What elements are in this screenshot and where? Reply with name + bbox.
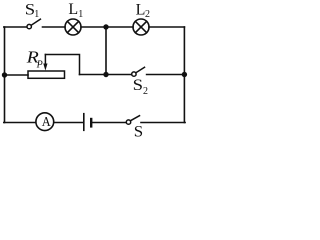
wire S to bottom-right corner [141,122,185,124]
svg-text:2: 2 [143,86,148,97]
label L2 [136,1,150,20]
node C junction dot [103,72,108,77]
ammeter A [36,113,54,131]
wire S2 to right vertical [147,74,185,76]
svg-text:S: S [133,77,143,94]
svg-text:S: S [134,124,143,141]
node B junction dot on left vertical [2,72,7,77]
battery cell long plate [83,114,85,131]
wire node C to switch S2 [106,74,132,76]
label L1 [68,1,83,20]
wire middle to node C [80,74,107,76]
svg-text:1: 1 [78,9,83,20]
wire ammeter to battery [55,122,84,124]
svg-text:2: 2 [145,9,150,20]
rheostat RP body [28,71,65,78]
wire node A to lamp L2 [106,26,133,28]
switch S [126,116,139,125]
node A to node C vertical wire [105,27,107,75]
wire bottom-left to ammeter [4,122,36,124]
svg-text:P: P [36,60,43,71]
wire node B to rheostat [5,74,29,76]
battery cell short plate [90,119,92,126]
wire L2 to top-right corner [149,26,184,28]
switch S2 [132,67,145,76]
svg-text:L: L [68,1,78,18]
rheostat RP wiper arrow [43,55,47,71]
svg-text:A: A [42,115,52,130]
lamp L2 [133,19,149,35]
wire wiper to middle wire [45,55,79,75]
wire right vertical [183,27,185,123]
wire top-left segment to switch S1 [4,26,27,28]
switch S1 [27,19,40,29]
lamp L1 [65,19,81,35]
svg-text:L: L [136,1,146,18]
label S1 [25,1,40,19]
wire L1 to node A [81,26,106,28]
wire S1 to lamp L1 [43,26,66,28]
label S2 [133,77,148,97]
svg-text:1: 1 [34,9,39,20]
wire battery to switch S [92,122,126,124]
node D junction dot on right vertical [182,72,187,77]
node A junction dot [103,24,108,29]
label RP [25,48,42,71]
wire left vertical [4,27,6,123]
